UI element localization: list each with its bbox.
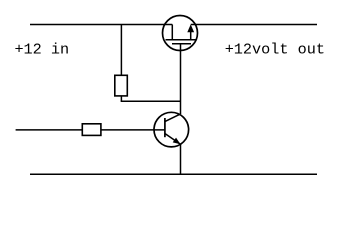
wire: R1 bottom stub [120, 96, 122, 101]
wire: R2 to Q2 base [101, 129, 165, 131]
wire: link from R1 to Q1 gate / Q2 collector line [121, 100, 181, 102]
wire: +12V input rail (top left segment) [30, 24, 172, 26]
svg-text:+12volt out: +12volt out [225, 40, 325, 58]
wire: +12V output rail (top right segment) [191, 24, 317, 26]
wire: Q2 emitter down to ground rail [180, 144, 182, 174]
svg-text:+12 in: +12 in [14, 40, 69, 58]
wire: branch from input rail down to R1 [120, 25, 122, 76]
transistor Q1 (P-channel MOSFET pass transistor) [163, 16, 198, 51]
wire: control input (left) to R2 [16, 129, 83, 131]
resistor R2 (base resistor, horizontal box) [82, 124, 101, 136]
transistor Q2 (NPN switch) [154, 112, 189, 147]
wire: Q1 gate lead down to Q2 collector [180, 44, 182, 114]
resistor R1 (gate pull, vertical box) [115, 75, 128, 96]
wire: ground/return rail (bottom) [30, 173, 317, 175]
